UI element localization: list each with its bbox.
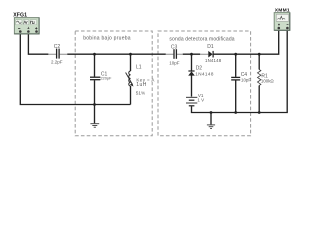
svg-text:1N4148: 1N4148 [195,71,214,76]
svg-text:bobina bajo prueba: bobina bajo prueba [83,36,131,42]
svg-text:1N4148: 1N4148 [205,58,222,63]
svg-text:1uH: 1uH [136,82,147,88]
svg-text:1 V: 1 V [197,97,204,102]
svg-text:51%: 51% [136,91,145,96]
svg-text:10pF: 10pF [169,60,180,65]
svg-text:XFG1: XFG1 [13,13,27,19]
svg-text:XMM1: XMM1 [275,8,290,14]
svg-text:C2: C2 [54,44,61,50]
svg-text:2.2pF: 2.2pF [51,59,63,64]
svg-text:sonda detectora modificada: sonda detectora modificada [169,37,234,43]
svg-text:L1: L1 [136,64,142,70]
svg-text:10pF: 10pF [241,77,251,82]
svg-text:D1: D1 [207,44,214,50]
svg-text:100kΩ: 100kΩ [261,79,275,84]
svg-text:C3: C3 [171,44,178,50]
svg-text:220pF: 220pF [100,75,112,80]
